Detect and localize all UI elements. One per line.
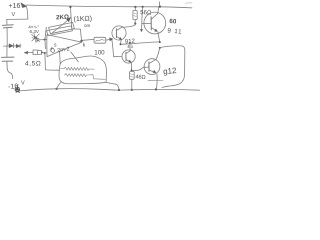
svg-text:6,3V: 6,3V	[30, 29, 40, 34]
svg-text:V: V	[21, 81, 25, 87]
svg-text:k: k	[83, 43, 86, 49]
svg-text:56Ω: 56Ω	[140, 10, 152, 16]
svg-text:2m-2: 2m-2	[57, 46, 70, 54]
svg-text:+16: +16	[9, 3, 21, 10]
svg-text:9 11: 9 11	[167, 27, 183, 35]
svg-text:2KΩ: 2KΩ	[56, 14, 69, 22]
svg-text:-16: -16	[8, 83, 19, 91]
svg-text:4,5Ω: 4,5Ω	[25, 61, 41, 68]
svg-text:V: V	[12, 12, 16, 18]
svg-text:4ʿλ: 4ʿλ	[127, 44, 134, 49]
svg-text:46Ω: 46Ω	[135, 74, 146, 81]
svg-text:60: 60	[169, 18, 177, 26]
svg-text:g12: g12	[163, 66, 178, 76]
svg-text:100: 100	[94, 50, 105, 57]
svg-text:om: om	[84, 23, 91, 28]
